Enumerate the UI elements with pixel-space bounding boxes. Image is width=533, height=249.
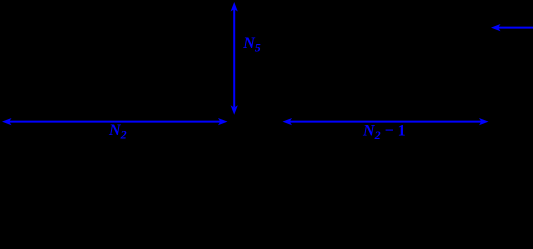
vertical dimension arrow N5 bbox=[231, 2, 238, 115]
top-right pointer arrow bbox=[491, 24, 533, 31]
right horizontal dimension arrow N2-1 bbox=[283, 118, 489, 125]
left horizontal dimension arrow N2 bbox=[2, 118, 228, 125]
svg-text:N2 − 1: N2 − 1 bbox=[362, 123, 406, 143]
